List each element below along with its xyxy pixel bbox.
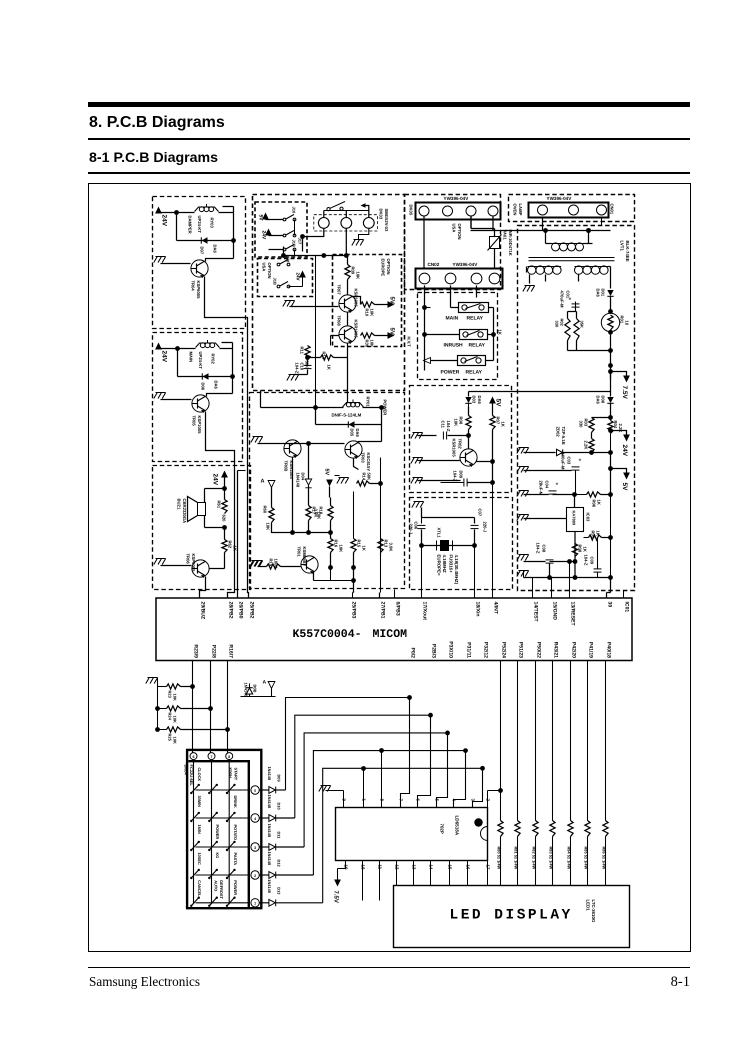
svg-text:LED DISPLAY: LED DISPLAY <box>450 908 573 924</box>
svg-text:SMG52V-03: SMG52V-03 <box>384 209 389 232</box>
svg-text:P52/24: P52/24 <box>501 642 507 658</box>
svg-text:1K: 1K <box>327 365 332 370</box>
node d3 <box>490 480 495 485</box>
transistor TR03 <box>345 441 371 471</box>
svg-text:1N4148: 1N4148 <box>244 683 249 698</box>
node p9 <box>608 492 613 497</box>
svg-text:R86 51 1/4W: R86 51 1/4W <box>601 847 606 870</box>
ground c10 <box>287 355 321 380</box>
ground (main) <box>154 393 192 400</box>
rule under title <box>88 138 690 140</box>
svg-text:KSR1005: KSR1005 <box>354 289 359 308</box>
svg-text:+: + <box>569 297 572 303</box>
svg-text:2: 2 <box>254 874 256 878</box>
svg-text:4/INT: 4/INT <box>493 602 499 615</box>
svg-text:7: 7 <box>211 755 213 759</box>
svg-text:P22/8: P22/8 <box>211 645 217 658</box>
svg-text:14/TEST: 14/TEST <box>533 602 539 623</box>
ground sec1 <box>523 286 535 292</box>
fusible resistor R01 <box>601 297 629 332</box>
svg-text:5V: 5V <box>324 469 330 476</box>
led display module <box>394 886 630 948</box>
svg-text:100K: 100K <box>274 559 279 569</box>
node p4 <box>608 363 613 368</box>
svg-text:3: 3 <box>254 846 256 850</box>
transformer core <box>529 258 615 261</box>
key block outline DK03 <box>314 209 389 232</box>
resistor R03c <box>568 312 585 351</box>
svg-text:CLOCK: CLOCK <box>197 768 202 782</box>
node p1 <box>608 309 613 314</box>
svg-text:10K: 10K <box>339 545 344 553</box>
power 5V europe 1 <box>375 297 396 308</box>
jig row 24V <box>261 220 303 245</box>
svg-text:J10: J10 <box>292 207 297 214</box>
buzzer BUZ1 <box>177 489 225 528</box>
svg-text:R12: R12 <box>322 352 327 360</box>
label inrush relay <box>444 343 486 349</box>
relay coil RY03 <box>159 204 234 234</box>
svg-text:R04: R04 <box>613 421 618 429</box>
diode D10 <box>260 795 295 822</box>
svg-text:1: 1 <box>254 902 256 906</box>
svg-text:DAMPER: DAMPER <box>188 216 193 234</box>
label europe xtal <box>437 555 448 577</box>
resistor R02 <box>555 312 571 351</box>
svg-text:RY01: RY01 <box>366 397 371 408</box>
capacitor C10 <box>295 360 312 375</box>
svg-text:104-Z: 104-Z <box>584 555 589 566</box>
diode D01 <box>596 289 614 314</box>
ground driver <box>319 786 344 792</box>
svg-text:C11: C11 <box>441 421 446 429</box>
svg-text:+: + <box>579 458 582 464</box>
svg-text:R80 51 1/4W: R80 51 1/4W <box>496 847 501 870</box>
dashed block: line input <box>509 195 635 222</box>
usa option 24V <box>296 271 306 281</box>
wire P2 to driver <box>437 733 448 808</box>
svg-text:UP24-KT: UP24-KT <box>198 352 203 370</box>
ground d09 <box>411 478 461 484</box>
wire P4 to driver <box>473 768 483 807</box>
wire P0 to driver <box>401 698 410 808</box>
wire TR05 emitter <box>206 412 235 598</box>
power rail 24V (main) <box>155 343 177 377</box>
wire primary feeds <box>543 218 602 244</box>
svg-text:R60: R60 <box>263 506 268 514</box>
resistor R13 <box>378 539 394 553</box>
relay contact POWER <box>431 356 494 366</box>
node p10 <box>554 559 578 564</box>
svg-text:5: 5 <box>254 789 256 793</box>
svg-text:1N4148: 1N4148 <box>267 795 272 809</box>
varistor VA01 <box>471 217 513 269</box>
wire tr07-tr08 <box>347 312 349 326</box>
dashed block: damper relay driver <box>153 197 246 329</box>
svg-text:50K: 50K <box>367 473 372 481</box>
svg-text:D11: D11 <box>277 832 282 840</box>
svg-text:D13: D13 <box>277 887 282 895</box>
svg-text:J1B: J1B <box>292 240 297 247</box>
wire key row 5 return <box>323 766 485 903</box>
svg-text:DA6: DA6 <box>355 429 360 438</box>
svg-text:P50/22: P50/22 <box>536 642 542 658</box>
svg-text:USA: USA <box>452 224 457 233</box>
svg-text:VA01: VA01 <box>503 230 508 241</box>
svg-text:R07: R07 <box>496 417 501 425</box>
svg-text:30: 30 <box>607 602 613 608</box>
svg-text:TZP-5.1B: TZP-5.1B <box>561 427 566 445</box>
svg-text:24V: 24V <box>261 231 267 241</box>
label keyboard part <box>184 765 195 787</box>
connector CN02 <box>416 269 503 289</box>
micom bottom pin labels <box>193 641 612 658</box>
svg-text:1N4148: 1N4148 <box>267 852 272 866</box>
svg-text:H.V.T: H.V.T <box>407 337 412 348</box>
diode D11 <box>260 824 305 851</box>
power 5V mid <box>324 469 349 498</box>
svg-text:5V: 5V <box>389 297 396 304</box>
svg-text:POWER: POWER <box>233 880 238 895</box>
svg-text:POWER: POWER <box>215 825 220 840</box>
svg-text:1K: 1K <box>596 531 601 536</box>
key matrix pin 7 <box>208 753 215 760</box>
svg-text:14: 14 <box>429 865 434 870</box>
power 7.5V out <box>608 369 630 399</box>
zener ZD02 <box>517 427 611 456</box>
wire osc top <box>422 508 475 524</box>
power rail 24V (damper) <box>155 207 176 241</box>
resistor R03 <box>579 418 595 439</box>
diode D04 <box>296 473 312 488</box>
svg-text:P32/12: P32/12 <box>483 642 489 658</box>
key matrix switches <box>190 784 249 907</box>
svg-text:470uF-M: 470uF-M <box>560 291 565 308</box>
wire driver pin10 <box>338 861 346 869</box>
svg-text:6: 6 <box>193 755 195 759</box>
power 5V out <box>608 466 630 491</box>
svg-text:R83 51 1/4W: R83 51 1/4W <box>548 847 553 870</box>
svg-text:1MIN: 1MIN <box>197 825 202 834</box>
svg-text:DK03: DK03 <box>379 209 384 220</box>
svg-text:P40/18: P40/18 <box>606 642 612 658</box>
dashed block: jig voltages <box>255 202 307 257</box>
diode D12 <box>260 852 314 879</box>
wire reg out <box>575 495 611 562</box>
ground (damper) <box>154 257 191 264</box>
wire key row 1 return <box>286 695 412 790</box>
wire cap c01 tap <box>576 311 611 313</box>
node o2 <box>419 543 424 548</box>
svg-text:1K: 1K <box>501 422 506 427</box>
svg-text:MICOM: MICOM <box>373 628 408 641</box>
svg-text:10K: 10K <box>370 340 375 348</box>
svg-text:R10: R10 <box>365 309 370 317</box>
svg-text:330: 330 <box>579 421 584 429</box>
svg-text:10K: 10K <box>454 419 459 427</box>
svg-text:1K: 1K <box>233 546 238 551</box>
svg-text:POWER: POWER <box>441 370 460 376</box>
svg-text:MAIN: MAIN <box>446 316 459 322</box>
svg-text:5V: 5V <box>495 399 502 408</box>
dashed block: line connector <box>405 195 501 290</box>
node r3 <box>306 441 311 446</box>
crystal XTL1 <box>422 528 475 551</box>
svg-text:R82 51 1/4W: R82 51 1/4W <box>531 847 536 870</box>
resistor R24 <box>155 706 213 723</box>
jig row 5V <box>258 207 297 222</box>
resistor R60 <box>263 506 293 533</box>
svg-text:R23: R23 <box>168 691 173 699</box>
ground right of buzzer box <box>250 561 262 567</box>
relay contact MAIN <box>451 303 494 313</box>
svg-text:P31/11: P31/11 <box>466 642 472 658</box>
svg-text:C03: C03 <box>567 457 572 465</box>
capacitor C08 <box>524 543 554 578</box>
svg-text:AUTO: AUTO <box>214 880 219 891</box>
resistor R25 <box>155 727 230 744</box>
svg-text:35K: 35K <box>580 321 585 328</box>
micom top pin labels <box>200 602 630 627</box>
wire tr08 emitter <box>347 343 349 402</box>
svg-text:POTATO: POTATO <box>233 825 238 841</box>
key matrix row pins <box>251 786 259 907</box>
wire micom vcc <box>607 538 611 598</box>
svg-text:10K: 10K <box>173 694 178 701</box>
power 24V out <box>608 428 630 457</box>
svg-text:R85 51 1/4W: R85 51 1/4W <box>583 847 588 870</box>
wire base bus <box>284 444 345 477</box>
svg-text:KSR1005: KSR1005 <box>289 461 294 480</box>
svg-text:4.19(30.4MHZ): 4.19(30.4MHZ) <box>454 555 459 585</box>
svg-text:5V: 5V <box>258 215 264 222</box>
wire tr03 collector <box>359 425 382 444</box>
wire tr03 emitter bus <box>380 458 381 598</box>
svg-text:13: 13 <box>412 865 417 870</box>
svg-text:ZD02: ZD02 <box>556 427 561 438</box>
resistor R30 <box>361 333 375 348</box>
svg-text:P0/2: P0/2 <box>410 648 416 659</box>
dashed block: option jig <box>253 195 405 391</box>
wire int line <box>492 483 494 598</box>
resistor R62 <box>222 540 238 553</box>
wire row532 <box>293 457 331 538</box>
svg-text:D05: D05 <box>350 429 355 437</box>
node p3 <box>568 348 613 353</box>
svg-text:1K: 1K <box>597 500 602 505</box>
ground reg <box>517 515 567 521</box>
svg-text:15/GND: 15/GND <box>552 602 558 621</box>
wire key row 2 return <box>295 713 433 818</box>
wire TR06 emitter <box>200 577 206 598</box>
label relay part <box>332 413 362 418</box>
ground c11 <box>411 433 437 439</box>
wire P3 to driver <box>454 751 466 808</box>
node p8 <box>572 492 577 507</box>
svg-text:R61: R61 <box>217 501 222 509</box>
power 5V d03 <box>489 397 501 416</box>
micom stub IC01 <box>623 591 625 598</box>
svg-text:17/Xout: 17/Xout <box>422 602 428 621</box>
svg-text:TR05: TR05 <box>192 416 197 427</box>
dashed block: USA option <box>258 259 313 297</box>
node p11 <box>547 575 552 580</box>
node j3 <box>175 346 180 351</box>
keyboard DK04 <box>187 750 261 908</box>
key matrix column lines <box>194 760 230 905</box>
svg-text:1N4148: 1N4148 <box>296 473 301 488</box>
wire P1 to driver <box>418 715 431 807</box>
svg-text:KSP6005: KSP6005 <box>191 554 196 573</box>
relay contact INRUSH <box>422 330 493 340</box>
svg-text:12: 12 <box>395 865 400 870</box>
node r5 <box>290 530 295 535</box>
label europe option <box>381 259 392 277</box>
wire bus577 <box>517 571 611 578</box>
wire cn04 down <box>424 217 493 268</box>
svg-text:10K: 10K <box>356 272 361 280</box>
label connector CN02 <box>428 262 479 267</box>
svg-text:PASTA: PASTA <box>233 853 238 866</box>
footer right: page number <box>600 974 690 991</box>
dashed block: main relay driver <box>153 333 243 462</box>
svg-text:26/PB0: 26/PB0 <box>238 602 244 619</box>
svg-text:1K: 1K <box>498 330 503 335</box>
diode D03 <box>465 396 482 416</box>
svg-text:CN01: CN01 <box>610 204 615 215</box>
svg-text:RELAY: RELAY <box>466 370 483 376</box>
resistor R16 <box>328 539 344 553</box>
svg-text:DRINK: DRINK <box>233 796 238 809</box>
resistor R82 (LED segment) <box>531 661 538 886</box>
svg-text:8: 8 <box>228 755 230 759</box>
transistor TR08 <box>337 316 359 345</box>
ground tr02 base <box>411 458 460 464</box>
capacitor C04 <box>539 481 575 496</box>
wire coil right down <box>223 207 234 241</box>
svg-text:OVEN: OVEN <box>513 204 518 216</box>
key circle K2 <box>324 211 369 256</box>
node p6 <box>589 450 594 455</box>
svg-text:RY02: RY02 <box>211 354 216 365</box>
wire bottom bus b5 <box>281 553 354 598</box>
wire base TR06 <box>210 553 225 569</box>
wire relay rail <box>261 391 344 408</box>
svg-text:R08: R08 <box>578 545 583 553</box>
resistor R23 <box>158 684 195 701</box>
resistor R04 <box>608 418 623 453</box>
svg-text:START: START <box>234 768 239 781</box>
svg-text:25/PB3: 25/PB3 <box>351 602 357 619</box>
power 7.5V driver <box>333 869 341 903</box>
label xtal part <box>449 555 460 585</box>
svg-text:220-J: 220-J <box>409 524 414 535</box>
svg-text:TR07: TR07 <box>337 285 342 296</box>
svg-text:1N4148: 1N4148 <box>267 824 272 838</box>
diode D08 <box>596 372 614 418</box>
svg-text:13/RESET: 13/RESET <box>570 602 576 627</box>
ground key pullups <box>146 678 158 730</box>
svg-text:R81 51 1/4W: R81 51 1/4W <box>513 847 518 870</box>
section title <box>89 114 225 132</box>
wire 5v top rail <box>469 392 611 397</box>
svg-text:R23/9: R23/9 <box>193 644 199 658</box>
svg-text:10K: 10K <box>266 523 271 531</box>
svg-text:C07: C07 <box>478 509 483 517</box>
transformer secondary A <box>527 266 562 274</box>
key matrix pin 8 <box>226 753 233 760</box>
resistor R84 (LED segment) <box>566 661 573 886</box>
svg-text:KSC815Y: KSC815Y <box>366 453 371 472</box>
power 5V europe 2 <box>375 328 396 339</box>
hv terminal <box>407 337 431 364</box>
node d2 <box>476 459 495 464</box>
resistor R18a <box>314 498 334 521</box>
svg-text:KSR1005: KSR1005 <box>452 439 457 458</box>
svg-text:LED1: LED1 <box>586 900 591 912</box>
subsection title <box>89 150 218 166</box>
svg-text:R62: R62 <box>228 541 233 549</box>
footer rule <box>88 967 690 969</box>
label 1K hvt <box>491 308 502 361</box>
transistor TR07 <box>337 285 359 314</box>
dashed block: buzzer driver <box>153 466 251 590</box>
wire option drop <box>315 256 317 408</box>
node r7 <box>328 530 333 535</box>
resistor R06 <box>575 492 611 508</box>
key switch lever DK03 <box>327 202 345 211</box>
resistor R08 <box>454 407 472 430</box>
capacitor C09 <box>584 538 602 578</box>
svg-text:R25: R25 <box>168 734 173 742</box>
dashed block: relays <box>418 293 498 380</box>
node p12 <box>573 562 578 580</box>
resistor R09 <box>345 256 361 280</box>
label usa option 2 <box>452 224 463 240</box>
svg-text:+: + <box>556 482 559 488</box>
svg-text:RY03: RY03 <box>210 218 215 229</box>
svg-text:DA6: DA6 <box>596 289 601 298</box>
resistor R15 <box>351 492 367 553</box>
svg-text:D0B: D0B <box>253 685 258 693</box>
dashed block: europe option <box>333 255 402 347</box>
svg-text:D03: D03 <box>472 396 477 404</box>
svg-text:P51/23: P51/23 <box>518 642 524 658</box>
svg-text:702P: 702P <box>440 824 445 834</box>
svg-text:104-Z: 104-Z <box>536 543 541 554</box>
resistor R05 <box>584 531 613 541</box>
dashed block: door sense <box>410 386 512 493</box>
resistor R10 <box>353 297 375 317</box>
svg-text:USA: USA <box>262 263 267 272</box>
svg-text:18: 18 <box>361 865 366 870</box>
svg-text:TR03: TR03 <box>361 453 366 464</box>
footer left: company <box>89 974 200 990</box>
svg-text:IC03: IC03 <box>586 513 591 523</box>
svg-text:MAIN: MAIN <box>189 352 194 363</box>
node d1 <box>466 430 471 449</box>
node j2 <box>231 238 236 243</box>
wire mains to transformer <box>471 228 611 233</box>
resistor R80 (LED segment) <box>496 661 503 886</box>
svg-text:LTC-3610G: LTC-3610G <box>591 900 596 923</box>
wire xin <box>474 546 476 598</box>
svg-text:IC01: IC01 <box>624 602 630 613</box>
svg-text:C09: C09 <box>590 557 595 565</box>
capacitor C11 <box>441 421 469 440</box>
micom stub 26/PB0 <box>238 471 246 598</box>
resistor R86 (LED segment) <box>601 661 608 886</box>
